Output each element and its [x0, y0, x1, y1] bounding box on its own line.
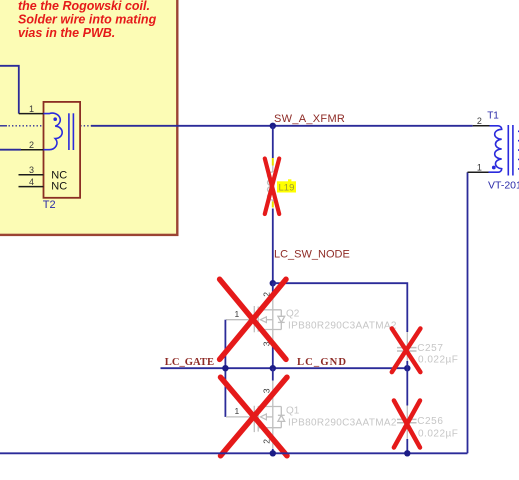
- wire LC_GATE stub: [161, 367, 408, 369]
- dotted wire right of T2: [80, 125, 91, 127]
- transformer T2 primary winding: [44, 113, 63, 150]
- svg-text:VT-201: VT-201: [488, 180, 519, 192]
- svg-text:vias in the PWB.: vias in the PWB.: [18, 26, 115, 40]
- svg-text:LC_GATE: LC_GATE: [165, 357, 214, 368]
- junction at LC_SW_NODE: [270, 280, 276, 286]
- Q1 body arrow: [260, 414, 266, 420]
- T2 NC labels: [51, 170, 67, 193]
- wire from junction down to L19: [272, 126, 274, 158]
- T2 pin 3 lead: [19, 174, 44, 176]
- svg-text:IPB80R290C3AATMA2: IPB80R290C3AATMA2: [288, 417, 397, 428]
- svg-text:T2: T2: [43, 199, 56, 211]
- not-fitted X over Q1: [221, 377, 288, 456]
- svg-text:T1: T1: [487, 111, 499, 122]
- not-fitted X over L19: [265, 159, 279, 215]
- wire C257 to LC_GND: [406, 361, 408, 368]
- junction LC_GND at cap branch: [404, 365, 410, 371]
- wire C256 to bottom rail: [406, 439, 408, 453]
- junction bottom rail at C256: [404, 450, 410, 456]
- transformer T2 core: [69, 113, 74, 150]
- svg-text:2: 2: [477, 116, 482, 126]
- transformer T1 secondary winding (clipped at edge): [518, 131, 519, 169]
- svg-text:IPB80R290C3AATMA2: IPB80R290C3AATMA2: [288, 320, 397, 331]
- T2 pin 1 lead: [19, 113, 44, 115]
- inductor L19 (greyed, highlighted pins): [267, 158, 272, 208]
- transformer T2 box: [44, 102, 81, 198]
- wire from L19 to LC_SW_NODE: [272, 209, 274, 284]
- svg-text:1: 1: [235, 406, 240, 416]
- wire to T2 pin 2: [0, 149, 21, 151]
- svg-text:the the Rogowski coil.: the the Rogowski coil.: [18, 0, 150, 13]
- svg-text:L19: L19: [279, 183, 295, 194]
- svg-text:LC_SW_NODE: LC_SW_NODE: [274, 249, 350, 261]
- main wire SW_A_XFMR: [91, 125, 473, 127]
- wire from junction down to Q2 drain: [272, 283, 274, 293]
- wire LC_GND to C256: [406, 368, 408, 405]
- note box: [0, 0, 177, 235]
- svg-text:NC: NC: [51, 181, 67, 193]
- wire LC_GND junction to Q1 drain: [272, 368, 274, 380]
- svg-text:0.022µF: 0.022µF: [418, 355, 458, 366]
- wire Q1 drain to bottom rail: [272, 449, 274, 453]
- gate wire vertical: [224, 320, 226, 417]
- T1 pin 2 lead: [473, 125, 490, 127]
- not-fitted X over Q2: [220, 279, 286, 359]
- T2 polarity dot: [53, 117, 57, 121]
- L19 designator highlight: [277, 181, 296, 192]
- mosfet Q1 (greyed): [226, 381, 285, 450]
- transformer T1 primary winding: [489, 126, 502, 172]
- svg-text:1: 1: [235, 309, 240, 319]
- svg-text:3: 3: [262, 388, 272, 393]
- T1 pin 1 lead: [468, 171, 489, 173]
- not-fitted X over C257: [392, 329, 421, 373]
- wire to T2 pin 1: [0, 66, 19, 114]
- Q2 body arrow: [260, 317, 266, 323]
- svg-text:Q1: Q1: [286, 406, 300, 417]
- junction LC_GATE: [222, 365, 228, 371]
- junction LC_GND at Q stack: [270, 365, 276, 371]
- T1 polarity dot: [492, 166, 496, 170]
- svg-text:Q2: Q2: [286, 309, 300, 320]
- capacitor C256 (greyed): [397, 406, 417, 440]
- junction at SW_A_XFMR: [270, 123, 276, 129]
- svg-text:C257: C257: [417, 343, 443, 354]
- bottom rail wire: [0, 452, 468, 454]
- svg-text:Solder wire into mating: Solder wire into mating: [18, 13, 157, 27]
- note text: [18, 0, 157, 40]
- svg-text:2: 2: [29, 140, 34, 150]
- dotted wire left of T2: [0, 125, 43, 127]
- not-fitted X over C256: [394, 401, 420, 448]
- wire from junction to C257 branch: [273, 283, 408, 332]
- svg-text:C256: C256: [417, 416, 443, 427]
- svg-text:0.022µF: 0.022µF: [418, 428, 458, 439]
- right vertical wire from T1 pin 1: [467, 172, 469, 453]
- mosfet Q2 (greyed): [226, 293, 285, 346]
- junction bottom rail at Q1: [270, 450, 276, 456]
- svg-text:1: 1: [477, 163, 482, 173]
- svg-text:SW_A_XFMR: SW_A_XFMR: [274, 113, 345, 125]
- T2 pin 2 lead: [21, 149, 44, 151]
- transformer T1 core: [508, 125, 513, 176]
- capacitor C257 (greyed): [397, 332, 417, 361]
- wire Q2 source to LC_GND: [272, 346, 274, 368]
- svg-text:3: 3: [29, 165, 34, 175]
- svg-text:4: 4: [29, 177, 34, 187]
- T2 pin 4 lead: [19, 186, 44, 188]
- svg-text:LC_GND: LC_GND: [297, 357, 347, 368]
- svg-text:1: 1: [29, 104, 34, 114]
